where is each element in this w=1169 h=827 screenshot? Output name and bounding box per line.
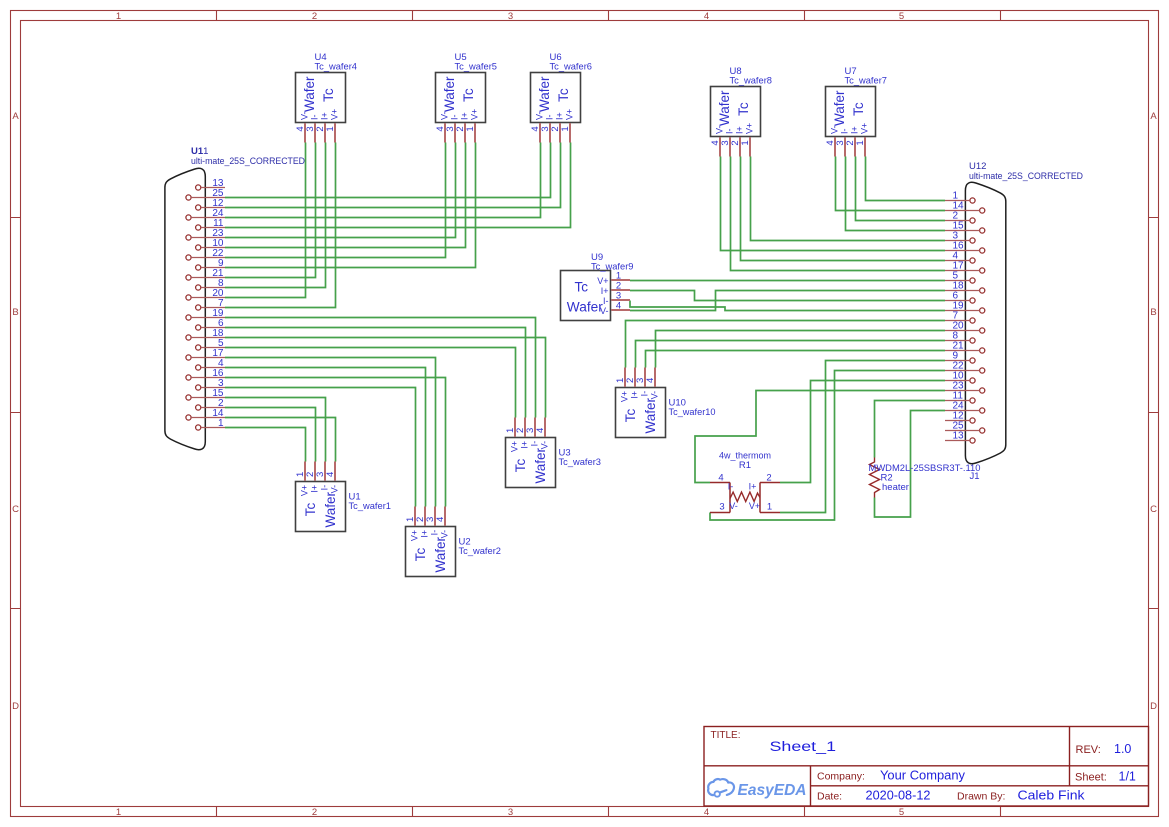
svg-text:3: 3 bbox=[508, 11, 513, 22]
wire U11.12 net bbox=[225, 143, 561, 208]
svg-text:1: 1 bbox=[855, 140, 866, 145]
svg-text:I+: I+ bbox=[555, 112, 565, 120]
svg-text:A: A bbox=[1150, 111, 1157, 122]
svg-text:4: 4 bbox=[704, 807, 709, 818]
svg-text:Tc: Tc bbox=[413, 548, 428, 562]
svg-text:Tc: Tc bbox=[851, 102, 866, 116]
wire U11.18 net bbox=[225, 338, 546, 418]
svg-text:I-: I- bbox=[640, 391, 650, 397]
svg-text:4: 4 bbox=[535, 428, 546, 433]
U12 pin 2 bbox=[945, 211, 975, 223]
U12 pin 16 bbox=[945, 241, 985, 253]
U11 pin 19 bbox=[186, 308, 225, 320]
U11 pin 6 bbox=[196, 318, 225, 330]
wire U12.15 net bbox=[846, 157, 946, 231]
U11 pin 13 bbox=[196, 178, 225, 190]
svg-text:Company:: Company: bbox=[817, 771, 865, 783]
wire U12.21 net bbox=[646, 351, 946, 368]
wire U12.24 net (R2 bottom) bbox=[875, 411, 946, 518]
svg-text:3: 3 bbox=[719, 502, 724, 513]
wire U12.6 net (U9.2) bbox=[630, 291, 945, 301]
svg-text:4: 4 bbox=[645, 378, 656, 383]
wire U12.1 net bbox=[866, 157, 946, 201]
svg-text:Wafer: Wafer bbox=[433, 537, 448, 573]
svg-text:1.0: 1.0 bbox=[1114, 742, 1131, 756]
U11 pin 3 bbox=[196, 378, 225, 390]
svg-text:I-: I- bbox=[530, 441, 540, 447]
svg-text:ulti-mate_25S_CORRECTED: ulti-mate_25S_CORRECTED bbox=[969, 171, 1083, 182]
svg-text:I-: I- bbox=[320, 485, 330, 491]
svg-text:D: D bbox=[1150, 701, 1157, 712]
svg-text:C: C bbox=[12, 504, 19, 515]
wire U11.24 net bbox=[225, 143, 541, 218]
svg-text:Wafer: Wafer bbox=[643, 398, 658, 434]
svg-text:1: 1 bbox=[218, 418, 224, 429]
U12 pin 13 bbox=[945, 431, 975, 443]
svg-text:5: 5 bbox=[899, 11, 904, 22]
U12 pin 19 bbox=[945, 301, 985, 313]
U11 pin 12 bbox=[196, 198, 225, 210]
wire U12.11 net (R2 top) bbox=[875, 401, 946, 458]
svg-text:Tc_wafer2: Tc_wafer2 bbox=[459, 546, 502, 557]
svg-text:Wafer: Wafer bbox=[832, 90, 847, 126]
U12 pin 11 bbox=[945, 391, 975, 403]
U11 pin 8 bbox=[196, 278, 225, 290]
U11 pin 14 bbox=[186, 408, 225, 420]
wire U11.6 net bbox=[225, 328, 526, 418]
svg-text:V+: V+ bbox=[749, 501, 760, 511]
svg-text:Wafer: Wafer bbox=[533, 448, 548, 484]
svg-text:1: 1 bbox=[325, 126, 336, 131]
EasyEDA logo cloud icon bbox=[708, 779, 734, 797]
svg-text:Tc: Tc bbox=[575, 280, 589, 295]
svg-text:4: 4 bbox=[435, 517, 446, 522]
svg-text:1: 1 bbox=[116, 807, 121, 818]
svg-text:5: 5 bbox=[899, 807, 904, 818]
svg-text:Tc_wafer7: Tc_wafer7 bbox=[845, 76, 888, 87]
U11 pin 10 bbox=[196, 238, 225, 250]
wire U12.10 net (R1.2) bbox=[780, 381, 945, 483]
svg-text:C: C bbox=[1150, 504, 1157, 515]
wire U11.23 net bbox=[225, 143, 456, 238]
U12 pin 7 bbox=[945, 311, 975, 323]
wire U11.20 net bbox=[225, 143, 306, 298]
U11 pin 25 bbox=[186, 188, 225, 200]
connector U11 ulti-mate_25S_CORRECTED body bbox=[165, 146, 305, 450]
U12 pin 8 bbox=[945, 331, 975, 343]
U11 pin 2 bbox=[196, 398, 225, 410]
wire U11.4 net bbox=[225, 368, 426, 507]
svg-text:Tc_wafer3: Tc_wafer3 bbox=[559, 457, 602, 468]
svg-text:TITLE:: TITLE: bbox=[711, 730, 741, 741]
svg-text:V+: V+ bbox=[300, 485, 310, 496]
svg-text:Wafer: Wafer bbox=[323, 492, 338, 528]
svg-text:I+: I+ bbox=[420, 530, 430, 538]
U11 pin 16 bbox=[186, 368, 225, 380]
IC U9 Tc_wafer9 (Tc wafer, pins right) bbox=[561, 252, 634, 321]
wire U11.21 net bbox=[225, 143, 316, 278]
title block row line 1 bbox=[704, 765, 1149, 767]
svg-text:Wafer: Wafer bbox=[537, 76, 552, 112]
title block rev column divider bbox=[1069, 727, 1071, 786]
svg-text:Caleb Fink: Caleb Fink bbox=[1018, 789, 1086, 803]
svg-text:I-: I- bbox=[450, 114, 460, 120]
svg-text:I-: I- bbox=[603, 296, 609, 306]
wire U11.25 net bbox=[225, 143, 551, 198]
svg-text:Tc: Tc bbox=[556, 88, 571, 102]
wire U11.16 net bbox=[225, 378, 446, 507]
svg-text:Tc: Tc bbox=[321, 88, 336, 102]
svg-text:3: 3 bbox=[508, 807, 513, 818]
wire U12.5 net (U9.1) bbox=[630, 280, 945, 282]
U12 pin 1 bbox=[945, 191, 975, 203]
svg-text:Your Company: Your Company bbox=[880, 769, 966, 783]
svg-text:R1: R1 bbox=[739, 460, 751, 471]
U12 pin 25 bbox=[945, 421, 985, 433]
svg-text:I+: I+ bbox=[460, 112, 470, 120]
svg-text:Tc_wafer1: Tc_wafer1 bbox=[349, 501, 392, 512]
U12 pin 23 bbox=[945, 381, 985, 393]
U12 pin 24 bbox=[945, 401, 985, 413]
U11 pin 18 bbox=[186, 328, 225, 340]
svg-text:2: 2 bbox=[766, 472, 771, 483]
wire U11.9 net bbox=[225, 143, 476, 268]
wire U11.2 net bbox=[225, 408, 316, 462]
svg-text:ulti-mate_25S_CORRECTED: ulti-mate_25S_CORRECTED bbox=[191, 156, 305, 167]
svg-text:I-: I- bbox=[840, 128, 850, 134]
svg-text:Tc_wafer9: Tc_wafer9 bbox=[591, 262, 634, 273]
svg-text:Tc_wafer8: Tc_wafer8 bbox=[730, 76, 773, 87]
svg-text:Tc_wafer6: Tc_wafer6 bbox=[550, 62, 593, 73]
svg-text:Tc: Tc bbox=[303, 503, 318, 517]
svg-text:1: 1 bbox=[116, 11, 121, 22]
svg-text:Tc: Tc bbox=[513, 459, 528, 473]
svg-text:V-: V- bbox=[729, 501, 738, 511]
wire U11.22 net bbox=[225, 143, 446, 258]
svg-text:Tc: Tc bbox=[461, 88, 476, 102]
U12 pin 9 bbox=[945, 351, 975, 363]
U12 pin 5 bbox=[945, 271, 975, 283]
U11 pin 4 bbox=[196, 358, 225, 370]
svg-text:EasyEDA: EasyEDA bbox=[738, 782, 807, 799]
svg-text:D: D bbox=[12, 701, 19, 712]
svg-text:I-: I- bbox=[728, 481, 734, 491]
svg-text:4: 4 bbox=[325, 472, 336, 477]
svg-text:heater: heater bbox=[882, 482, 909, 493]
svg-text:I+: I+ bbox=[320, 112, 330, 120]
svg-text:V+: V+ bbox=[510, 441, 520, 452]
IC U10 Tc_wafer10 (Tc wafer, pins up) bbox=[615, 368, 715, 438]
svg-text:Drawn By:: Drawn By: bbox=[957, 791, 1005, 803]
wire U11.1 net bbox=[225, 428, 306, 462]
wire U12.3 net bbox=[751, 157, 946, 241]
wire U11.7 net bbox=[225, 143, 336, 308]
U11 pin 23 bbox=[186, 228, 225, 240]
svg-text:Sheet_1: Sheet_1 bbox=[770, 739, 837, 754]
wire U12.9 net (R1.1) bbox=[780, 361, 945, 513]
svg-text:J1: J1 bbox=[970, 471, 980, 482]
U11 pin 11 bbox=[196, 218, 225, 230]
svg-text:Wafer: Wafer bbox=[717, 90, 732, 126]
U11 pin 21 bbox=[186, 268, 225, 280]
wire U12.8 net bbox=[636, 341, 946, 368]
U11 pin 7 bbox=[196, 298, 225, 310]
svg-text:Tc_wafer4: Tc_wafer4 bbox=[315, 62, 358, 73]
wire U12.23 net (R1.4) bbox=[695, 391, 945, 483]
wire U12.17 net bbox=[731, 157, 946, 271]
svg-text:Tc_wafer10: Tc_wafer10 bbox=[669, 407, 716, 418]
svg-text:Wafer: Wafer bbox=[567, 300, 603, 315]
IC U2 Tc_wafer2 (Tc wafer, pins up) bbox=[405, 507, 501, 577]
svg-text:REV:: REV: bbox=[1076, 744, 1101, 756]
svg-text:I-: I- bbox=[545, 114, 555, 120]
svg-text:4: 4 bbox=[704, 11, 709, 22]
wire U12.20 net bbox=[656, 331, 946, 368]
U12 pin 6 bbox=[945, 291, 975, 303]
svg-text:B: B bbox=[12, 307, 18, 318]
title block logo cell divider bbox=[810, 766, 812, 806]
svg-text:V+: V+ bbox=[470, 109, 480, 120]
svg-text:V+: V+ bbox=[330, 109, 340, 120]
svg-text:I+: I+ bbox=[735, 126, 745, 134]
svg-text:I+: I+ bbox=[749, 481, 757, 491]
wire U11.19 net bbox=[225, 318, 536, 418]
IC U7 Tc_wafer7 (Tc wafer, pins down) bbox=[825, 66, 887, 157]
svg-text:B: B bbox=[1150, 307, 1156, 318]
svg-text:V+: V+ bbox=[597, 276, 608, 286]
resistor R2 heater bbox=[869, 458, 981, 498]
svg-text:V+: V+ bbox=[745, 123, 755, 134]
svg-text:Date:: Date: bbox=[817, 791, 842, 803]
svg-text:V+: V+ bbox=[620, 391, 630, 402]
svg-text:I-: I- bbox=[310, 114, 320, 120]
svg-text:I+: I+ bbox=[850, 126, 860, 134]
wire U11.17 net bbox=[225, 358, 436, 507]
wire U11.5 net bbox=[225, 348, 516, 418]
U12 pin 10 bbox=[945, 371, 975, 383]
svg-text:I-: I- bbox=[725, 128, 735, 134]
svg-text:A: A bbox=[12, 111, 19, 122]
ruler column ticks bbox=[217, 11, 1001, 817]
IC U6 Tc_wafer6 (Tc wafer, pins down) bbox=[530, 52, 592, 143]
svg-text:2: 2 bbox=[312, 807, 317, 818]
U11 pin 22 bbox=[186, 248, 225, 260]
U12 pin 17 bbox=[945, 261, 985, 273]
svg-text:4: 4 bbox=[718, 472, 723, 483]
U12 pin 4 bbox=[945, 251, 975, 263]
IC U4 Tc_wafer4 (Tc wafer, pins down) bbox=[295, 52, 357, 143]
IC U5 Tc_wafer5 (Tc wafer, pins down) bbox=[435, 52, 497, 143]
svg-text:4: 4 bbox=[616, 301, 621, 312]
svg-text:I+: I+ bbox=[601, 286, 609, 296]
svg-text:Sheet:: Sheet: bbox=[1075, 772, 1107, 784]
U12 pin 22 bbox=[945, 361, 985, 373]
U12 pin 14 bbox=[945, 201, 985, 213]
svg-text:1: 1 bbox=[560, 126, 571, 131]
wire U12.16 net bbox=[721, 157, 946, 251]
wire U11.11 net bbox=[225, 143, 571, 228]
wire U11.14 net bbox=[225, 418, 336, 462]
svg-text:I+: I+ bbox=[630, 391, 640, 399]
ruler row ticks bbox=[11, 218, 1159, 609]
svg-text:V+: V+ bbox=[410, 530, 420, 541]
resistor R1 4w_thermom (4-wire thermometer) bbox=[710, 451, 780, 513]
svg-text:V+: V+ bbox=[860, 123, 870, 134]
svg-text:1/1: 1/1 bbox=[1119, 770, 1136, 784]
U11 pin 17 bbox=[186, 348, 225, 360]
U11 pin 20 bbox=[186, 288, 225, 300]
U11 pin 1 bbox=[196, 418, 225, 430]
U11 pin 5 bbox=[196, 338, 225, 350]
IC U8 Tc_wafer8 (Tc wafer, pins down) bbox=[710, 66, 772, 157]
svg-text:13: 13 bbox=[953, 431, 965, 442]
wire U11.8 net bbox=[225, 143, 326, 288]
svg-text:I-: I- bbox=[430, 530, 440, 536]
U12 pin 18 bbox=[945, 281, 985, 293]
svg-text:2: 2 bbox=[312, 11, 317, 22]
svg-text:2020-08-12: 2020-08-12 bbox=[866, 789, 931, 803]
svg-text:Wafer: Wafer bbox=[302, 76, 317, 112]
IC U3 Tc_wafer3 (Tc wafer, pins up) bbox=[505, 418, 601, 488]
svg-text:Tc: Tc bbox=[736, 102, 751, 116]
U12 pin 20 bbox=[945, 321, 985, 333]
wire U11.15 net bbox=[225, 398, 326, 462]
wire U12.19 net (U9.3) bbox=[630, 301, 945, 311]
wire U12.22 net (R1.3) bbox=[710, 371, 945, 521]
U12 pin 12 bbox=[945, 411, 975, 423]
wire U12.18 net (U9.4) bbox=[630, 291, 945, 311]
title block row line 2 bbox=[811, 785, 1149, 787]
wire U12.7 net bbox=[626, 321, 946, 368]
svg-text:I+: I+ bbox=[520, 441, 530, 449]
U12 pin 3 bbox=[945, 231, 975, 243]
U12 pin 15 bbox=[945, 221, 985, 233]
wire U12.4 net bbox=[741, 157, 946, 261]
U12 pin 21 bbox=[945, 341, 985, 353]
title block bbox=[704, 727, 1149, 807]
title block outline bbox=[704, 727, 1149, 807]
svg-text:V+: V+ bbox=[565, 109, 575, 120]
wire U12.14 net bbox=[836, 157, 946, 211]
svg-text:I+: I+ bbox=[310, 485, 320, 493]
svg-text:Wafer: Wafer bbox=[442, 76, 457, 112]
wire U11.10 net bbox=[225, 143, 466, 248]
connector U12 ulti-mate_25S_CORRECTED body bbox=[945, 161, 1083, 464]
svg-text:1: 1 bbox=[740, 140, 751, 145]
IC U1 Tc_wafer1 (Tc wafer, pins up) bbox=[295, 462, 391, 532]
wire U12.2 net bbox=[856, 157, 946, 221]
svg-text:Tc_wafer5: Tc_wafer5 bbox=[455, 62, 498, 73]
svg-text:1: 1 bbox=[465, 126, 476, 131]
svg-text:1: 1 bbox=[767, 502, 772, 513]
svg-text:Tc: Tc bbox=[623, 409, 638, 423]
U11 pin 24 bbox=[186, 208, 225, 220]
U11 pin 9 bbox=[196, 258, 225, 270]
wire U11.3 net bbox=[225, 388, 416, 507]
U11 pin 15 bbox=[186, 388, 225, 400]
